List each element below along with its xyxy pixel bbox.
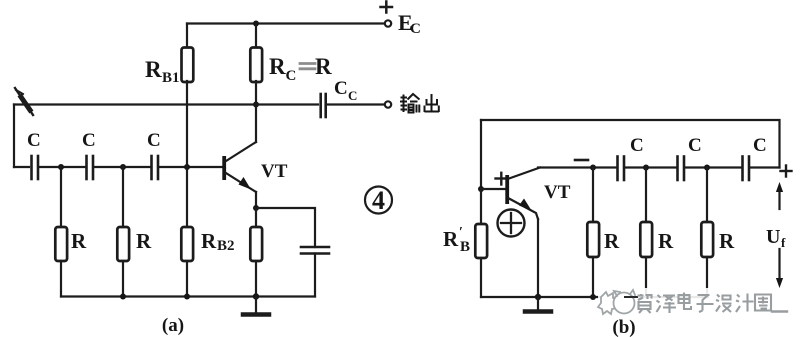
resistor RB2	[181, 167, 193, 297]
wire top feedback rail (b)	[481, 120, 780, 168]
node bottom junction R1 (b)	[590, 294, 596, 300]
svg-text:R: R	[71, 229, 87, 253]
wire bypass branch top	[256, 208, 315, 247]
label RB2	[201, 229, 235, 254]
svg-text:(a): (a)	[162, 315, 184, 336]
label + at Uf	[781, 166, 792, 177]
node base node (b)	[478, 186, 484, 192]
resistor R1 (b)	[587, 168, 599, 298]
node bottom junction R2	[120, 294, 126, 300]
watermark logo	[598, 290, 635, 314]
svg-text:C: C	[147, 130, 161, 151]
wire base lead (b)	[481, 188, 506, 190]
resistor R1 (a)	[55, 167, 67, 297]
capacitor C1 (b)	[618, 157, 625, 181]
watermark backdrop	[598, 288, 774, 314]
wire left edge (b)	[480, 120, 482, 189]
watermark underline	[772, 310, 787, 312]
node output terminal	[385, 101, 391, 107]
ground (b)	[525, 297, 551, 312]
Uf arrow upper	[776, 182, 783, 209]
svg-text:C: C	[286, 68, 297, 84]
label R'B	[443, 225, 470, 255]
resistor R2 (b)	[640, 168, 652, 298]
label Uf	[766, 226, 786, 250]
wire rail gap segment	[625, 296, 637, 298]
label CC	[334, 78, 357, 103]
wire bottom rail (a)	[61, 295, 315, 297]
node top rail junction	[253, 21, 259, 27]
svg-text:C: C	[82, 130, 96, 151]
capacitor C3 (b)	[743, 157, 750, 181]
svg-text:R: R	[604, 229, 620, 253]
svg-text:C: C	[348, 88, 357, 103]
svg-text:VT: VT	[261, 161, 288, 182]
node emitter junction (a)	[253, 205, 259, 211]
node emitter ground junction (b)	[535, 294, 541, 300]
node chain junction 1 (b)	[643, 165, 649, 171]
Uf arrow lower	[776, 249, 783, 288]
svg-text:C: C	[688, 135, 702, 156]
label + at base	[496, 173, 508, 185]
svg-text:R: R	[145, 57, 162, 82]
node bottom ground junction	[253, 293, 259, 299]
svg-text:C: C	[27, 130, 41, 151]
watermark text mouser cn	[638, 293, 772, 314]
svg-text:B1: B1	[162, 70, 180, 86]
wire collector line (b)	[538, 166, 616, 168]
svg-text:C: C	[630, 135, 644, 156]
wire chain segment (b) 4	[751, 166, 780, 168]
node bottom junction RB2	[184, 294, 190, 300]
capacitor CC	[321, 94, 384, 117]
svg-text:C: C	[753, 135, 767, 156]
feedback break slash	[15, 88, 33, 115]
svg-text:R: R	[201, 229, 217, 253]
capacitor C2 (a)	[87, 156, 94, 179]
resistor RE (a)	[250, 208, 262, 297]
capacitor C2 (b)	[678, 157, 685, 181]
resistor R'B	[475, 189, 487, 297]
svg-text:′: ′	[459, 225, 463, 240]
wire top supply rail (a)	[187, 22, 384, 24]
svg-text:(b): (b)	[612, 317, 635, 337]
label RC = R	[269, 54, 332, 84]
label shuchu (output)	[400, 94, 439, 113]
resistor RC	[250, 24, 262, 105]
label Ec	[398, 10, 421, 37]
terminal + supply	[381, 2, 393, 13]
svg-text:C: C	[410, 21, 421, 37]
transistor VT (b)	[505, 168, 540, 298]
capacitor CE bypass	[301, 247, 329, 297]
circled number 4	[365, 186, 392, 215]
resistor R3 (b)	[701, 168, 713, 298]
svg-text:C: C	[334, 78, 348, 99]
node Ec terminal	[385, 20, 391, 26]
wire bottom rail (b)	[481, 296, 708, 298]
label RB1	[145, 57, 180, 86]
node chain junction 2	[120, 164, 126, 170]
node collector junction (b)	[590, 165, 596, 171]
node chain junction 2 (b)	[704, 165, 710, 171]
resistor RB1	[182, 24, 194, 168]
wire chain segment (b) 2	[626, 166, 676, 168]
svg-text:VT: VT	[544, 182, 571, 203]
svg-text:B: B	[460, 239, 470, 255]
node collector junction on output line	[253, 102, 259, 108]
svg-text:R: R	[443, 227, 459, 251]
source circle with plus	[498, 210, 525, 237]
capacitor C3 (a)	[152, 156, 159, 179]
svg-text:B2: B2	[217, 238, 235, 254]
svg-text:R: R	[719, 229, 735, 253]
resistor R2 (a)	[117, 167, 129, 297]
svg-text:f: f	[781, 235, 786, 250]
wire chain segment 3	[95, 166, 150, 168]
svg-text:R: R	[658, 229, 674, 253]
wire left edge (a)	[13, 105, 15, 168]
capacitor C1 (a)	[32, 156, 39, 179]
wire phase-shift chain line (a)	[14, 166, 29, 168]
node base divider junction	[184, 164, 190, 170]
svg-text:R: R	[315, 54, 332, 79]
svg-text:U: U	[766, 226, 780, 248]
label minus at collector	[575, 159, 588, 162]
wire chain segment 2	[40, 166, 85, 168]
node chain junction 1	[58, 164, 64, 170]
svg-text:R: R	[269, 54, 286, 79]
wire output line	[14, 103, 318, 105]
wire chain segment (b) 3	[686, 166, 741, 168]
svg-text:4: 4	[372, 186, 385, 215]
wire chain segment 4 (to base)	[160, 166, 223, 168]
svg-text:R: R	[136, 229, 152, 253]
transistor VT (a)	[222, 105, 256, 209]
ground (a)	[243, 297, 269, 315]
